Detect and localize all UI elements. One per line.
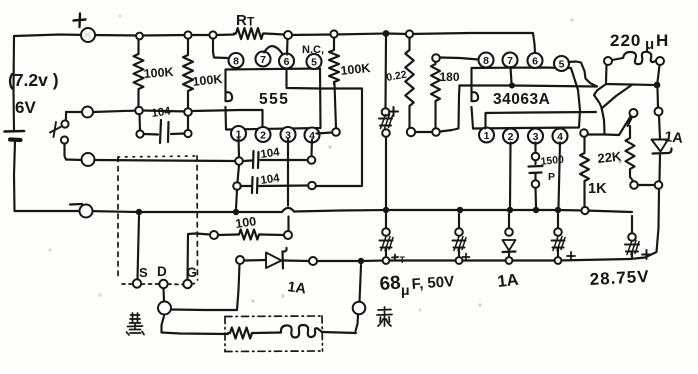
svg-text:R: R <box>236 12 247 29</box>
svg-text:555: 555 <box>259 91 289 108</box>
svg-text:220: 220 <box>610 31 641 50</box>
svg-text:22K: 22K <box>597 149 623 166</box>
svg-text:(7.2v ): (7.2v ) <box>8 70 59 90</box>
svg-text:H: H <box>656 31 668 50</box>
svg-text:1A: 1A <box>286 279 307 297</box>
svg-text:N.C,: N.C, <box>302 44 324 56</box>
svg-text:S: S <box>139 265 148 280</box>
svg-text:28.75V: 28.75V <box>589 267 650 289</box>
svg-text:7: 7 <box>507 55 513 67</box>
svg-text:5: 5 <box>559 59 565 71</box>
svg-text:T: T <box>400 255 406 265</box>
svg-text:6: 6 <box>284 56 290 68</box>
svg-text:P: P <box>548 171 555 183</box>
svg-text:100: 100 <box>234 214 257 231</box>
svg-text:180: 180 <box>440 70 460 84</box>
svg-text:34063A: 34063A <box>493 91 550 108</box>
svg-text:G: G <box>187 265 198 280</box>
svg-text:6: 6 <box>532 56 538 68</box>
svg-text:1: 1 <box>236 129 242 141</box>
svg-text:8: 8 <box>483 55 489 67</box>
svg-text:3: 3 <box>285 130 291 142</box>
svg-text:68: 68 <box>379 273 402 295</box>
svg-text:D: D <box>157 264 167 279</box>
svg-text:4: 4 <box>309 130 315 142</box>
svg-text:T: T <box>247 15 255 29</box>
svg-text:1500: 1500 <box>540 154 565 168</box>
svg-text:100K: 100K <box>143 65 174 81</box>
svg-text:6V: 6V <box>15 98 36 117</box>
svg-text:2: 2 <box>260 130 266 142</box>
svg-text:5: 5 <box>311 57 317 69</box>
svg-text:8: 8 <box>233 56 239 68</box>
svg-text:μ: μ <box>401 282 410 298</box>
svg-text:1K: 1K <box>588 181 607 197</box>
svg-text:7: 7 <box>260 54 266 66</box>
svg-text:1: 1 <box>484 130 490 142</box>
svg-text:F, 50V: F, 50V <box>411 273 455 293</box>
svg-text:3: 3 <box>533 131 539 143</box>
svg-text:2: 2 <box>508 131 514 143</box>
svg-text:1A: 1A <box>664 129 685 147</box>
svg-text:μ: μ <box>645 36 654 53</box>
svg-text:4: 4 <box>557 131 563 143</box>
svg-text:1A: 1A <box>497 271 520 291</box>
